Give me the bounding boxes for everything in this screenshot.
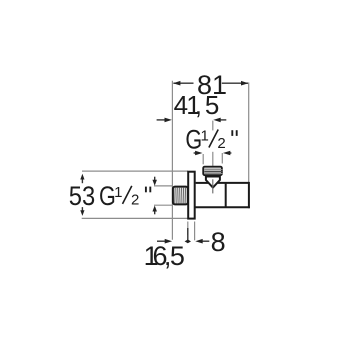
svg-text:,: ,: [195, 90, 202, 120]
svg-text:1: 1: [114, 184, 122, 201]
svg-text:53: 53: [69, 182, 95, 212]
svg-text:8: 8: [211, 227, 226, 257]
svg-text:5: 5: [205, 90, 219, 120]
svg-text:5: 5: [170, 241, 185, 271]
svg-text:2: 2: [131, 192, 139, 209]
svg-text:2: 2: [217, 135, 225, 152]
svg-text:1: 1: [201, 128, 209, 145]
